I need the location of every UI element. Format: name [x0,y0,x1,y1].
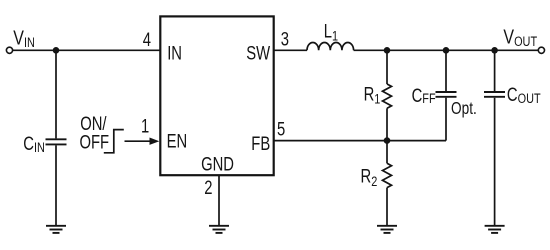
capacitor CFF [436,92,457,97]
junction FB node [384,137,391,144]
junction CIN node [53,47,60,54]
svg-text:FB: FB [251,133,270,154]
resistor R2 [383,163,392,187]
svg-text:GND: GND [201,154,234,175]
svg-text:4: 4 [143,29,151,50]
ground R2 [377,226,397,233]
wire R1 top [386,50,388,84]
ground IC [209,226,229,233]
ground COUT [485,226,505,233]
logic edge symbol (ON/OFF step) [104,130,124,153]
capacitor COUT [484,92,505,97]
wire R2 top [386,141,388,164]
wire COUT top [494,50,496,91]
wire SW to L1 [274,49,307,51]
svg-text:1: 1 [141,116,149,137]
svg-text:5: 5 [277,119,285,140]
junction R1 / SW rail [384,47,391,54]
svg-text:EN: EN [167,131,188,152]
wire CFF top [445,50,447,91]
svg-text:2: 2 [204,177,212,198]
wire CFF bottom [445,98,447,141]
svg-text:OFF: OFF [80,132,110,153]
wire CIN top [55,50,57,138]
wire FB line [274,140,446,142]
wire R2 bottom [386,188,388,226]
svg-text:3: 3 [281,29,289,50]
wire L1 to VOUT [354,49,539,51]
inductor L1 [307,42,354,50]
wire GND pin 2 [218,175,220,226]
wire R1 bottom [386,108,388,140]
wire VIN to IN pin [13,49,160,51]
wire EN arrow [125,140,151,142]
ground CIN [46,226,66,233]
svg-text:Opt.: Opt. [451,100,477,119]
junction COUT / SW rail [491,47,498,54]
svg-text:SW: SW [246,43,270,64]
node VIN terminal [6,47,12,53]
IC U1 [160,16,273,175]
node VOUT terminal [538,47,544,53]
wire COUT bottom [494,98,496,226]
capacitor CIN [46,139,67,144]
wire CIN bottom [55,145,57,225]
junction CFF / SW rail [443,47,450,54]
resistor R1 [383,84,392,108]
svg-text:IN: IN [167,43,182,64]
